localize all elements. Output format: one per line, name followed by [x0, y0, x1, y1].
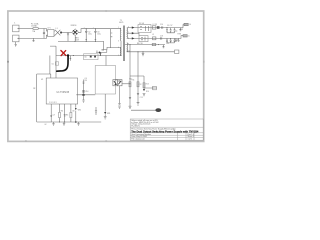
- svg-text:R2: R2: [33, 88, 35, 90]
- svg-text:C8: C8: [72, 111, 74, 113]
- wire bridge plus to top rail: [75, 29, 110, 33]
- bias rectifier branch: [96, 41, 107, 52]
- svg-text:U2: U2: [115, 80, 117, 82]
- feedback resistor R11: [137, 82, 139, 87]
- output connector JP1: [184, 23, 188, 25]
- svg-text:250VAC: 250VAC: [31, 24, 38, 27]
- svg-text:C11: C11: [166, 43, 169, 45]
- red X annotation: [61, 51, 66, 56]
- svg-text:0V: 0V: [45, 124, 48, 126]
- thick marker curve annotation: [57, 54, 69, 71]
- svg-text:VR2: VR2: [78, 110, 81, 112]
- title block outline: [130, 119, 203, 140]
- svg-text:C12: C12: [139, 84, 142, 86]
- bulk capacitor C3: [94, 29, 96, 42]
- svg-text:BR1: BR1: [75, 38, 78, 40]
- svg-text:C D S F X: C D S F X: [49, 102, 57, 104]
- svg-text:R5: R5: [66, 115, 68, 117]
- row A extra cap: [180, 28, 182, 31]
- svg-text:EE25: EE25: [119, 22, 123, 24]
- zone tick left border: [7, 61, 9, 63]
- transformer T1 secondary winding lower: [126, 43, 129, 52]
- optocoupler U2: [113, 80, 117, 86]
- connector J1 box: [13, 25, 19, 32]
- svg-text:L3: L3: [152, 34, 154, 36]
- IC U1: [46, 78, 77, 104]
- tl431 ref component: [153, 86, 157, 89]
- svg-text:2KBP06: 2KBP06: [71, 25, 77, 27]
- drain feed vertical: [50, 46, 56, 78]
- title block vertical separator 2: [193, 133, 195, 140]
- sheet border frame: [8, 11, 204, 141]
- feedback cap C13: [129, 97, 131, 98]
- wire bridge minus to bottom rail: [58, 36, 104, 42]
- secondary row C wire: [127, 36, 183, 39]
- svg-text:C16: C16: [160, 24, 163, 26]
- zone tick top border: [105, 10, 107, 11]
- title block vertical separator 0: [177, 133, 179, 140]
- ground under zener: [104, 117, 107, 119]
- row D cap stub: [163, 45, 165, 48]
- transformer T1 primary winding: [119, 28, 122, 41]
- svg-text:R11: R11: [132, 79, 135, 81]
- opto emitter cap branch: [118, 86, 120, 105]
- fuse F1: [33, 28, 38, 30]
- svg-text:R8 C10: R8 C10: [137, 43, 143, 45]
- svg-text:U1 TOP245: U1 TOP245: [57, 91, 70, 94]
- svg-text:+: +: [84, 27, 85, 29]
- title block separator 2: [130, 132, 203, 134]
- svg-text:J4: J4: [189, 24, 191, 26]
- row D bead FB1: [152, 44, 156, 46]
- row E ground: [142, 52, 145, 56]
- output connector JP3: [175, 50, 179, 53]
- svg-text:C9 C17: C9 C17: [167, 25, 173, 27]
- ground for bypass column: [82, 100, 84, 102]
- primary ground bus: [37, 121, 102, 123]
- svg-text:D3: D3: [102, 50, 104, 52]
- svg-text:R14: R14: [146, 91, 149, 93]
- svg-text:C14: C14: [85, 91, 88, 93]
- clamp row wire: [56, 55, 121, 57]
- wire fuse to filter: [38, 29, 47, 39]
- svg-text:1: 1: [14, 23, 16, 25]
- zone tick bottom left: [25, 140, 27, 141]
- svg-text:100u: 100u: [97, 33, 101, 35]
- svg-text:C3: C3: [97, 31, 99, 33]
- secondary row B wire: [127, 33, 139, 35]
- svg-text:U1: U1: [41, 79, 43, 81]
- zone tick bottom border: [105, 140, 107, 141]
- feedback resistor R12: [143, 83, 145, 88]
- secondary row E wire: [127, 51, 175, 53]
- ground symbol right: [77, 122, 79, 126]
- bridge rectifier BR1: [72, 29, 79, 36]
- U1 bottom pin 1 wire: [50, 104, 52, 122]
- common-mode choke L1 crossed windings: [54, 30, 60, 36]
- svg-text:R3: R3: [85, 80, 87, 82]
- wire primary bottom to drain node: [120, 41, 122, 56]
- ground symbol left: [52, 122, 54, 126]
- output choke L2: [157, 26, 160, 29]
- clamp diode D1: [99, 53, 101, 55]
- svg-text:1 of 1: 1 of 1: [188, 139, 193, 141]
- svg-text:C7: C7: [53, 115, 55, 117]
- svg-text:L2 C9: L2 C9: [153, 24, 158, 26]
- svg-text:3: 3: [118, 41, 119, 43]
- filter caps row A: [166, 28, 177, 33]
- bias diode D3: [99, 51, 102, 53]
- svg-text:10: 10: [128, 51, 130, 53]
- PE ground under J2: [15, 42, 17, 46]
- secondary row D wire: [125, 44, 165, 46]
- series sense R row A: [152, 26, 156, 29]
- svg-text:File: dualout.sch: File: dualout.sch: [131, 138, 144, 141]
- wire left return down: [37, 56, 51, 123]
- opto branch ground: [118, 106, 121, 108]
- wire bias winding taps: [107, 47, 121, 55]
- line filter box FL1: [48, 30, 54, 37]
- row C extra parts: [153, 37, 156, 40]
- feedback resistor R10: [129, 82, 131, 87]
- wire J2 to filter: [19, 35, 48, 38]
- title block separator 1: [130, 126, 203, 128]
- junction dots: [18, 27, 172, 123]
- svg-text:R4: R4: [61, 111, 63, 113]
- svg-text:100u: 100u: [88, 33, 92, 35]
- X capacitor C1b stub at bridge: [67, 32, 69, 41]
- secondary return wire: [131, 109, 156, 111]
- wire choke to bridge: [62, 31, 72, 33]
- secondary row A wire: [127, 25, 184, 28]
- svg-text:RTN: RTN: [178, 33, 182, 35]
- connector J2 box: [13, 35, 19, 42]
- wire opto to divider: [122, 83, 130, 85]
- svg-text:C6: C6: [84, 57, 86, 59]
- transformer T1 core: [123, 26, 124, 62]
- post filter box row C: [139, 36, 148, 42]
- row C extra cap: [178, 38, 180, 41]
- ground symbol mid: [63, 122, 65, 126]
- title block separator 3: [130, 134, 203, 136]
- svg-text:C15: C15: [140, 97, 143, 99]
- output rectifier D4: [132, 37, 135, 39]
- feedback divider verticals: [130, 45, 138, 76]
- feedback cap C12: [137, 93, 139, 94]
- title block vertical separator 1: [185, 133, 187, 140]
- bias cap C4b branch: [95, 107, 97, 115]
- U1 bottom pin 2 component R6: [59, 104, 61, 122]
- zener D6: [75, 108, 77, 110]
- svg-text:C2: C2: [88, 31, 90, 33]
- svg-text:C5: C5: [52, 63, 54, 65]
- output connector JP2: [183, 35, 187, 37]
- wire HV rail drop: [111, 29, 121, 48]
- U1 bottom pin 5 zener branch: [75, 104, 77, 122]
- svg-text:J5: J5: [188, 36, 190, 38]
- row A small marks: [162, 26, 163, 28]
- title block separator 4: [130, 137, 203, 139]
- capacitor C1 stub: [33, 38, 35, 41]
- bypass cap column right of U1: [76, 80, 95, 101]
- svg-text:+12V: +12V: [179, 29, 184, 31]
- svg-text:D1: D1: [96, 51, 98, 53]
- svg-text:VR1: VR1: [107, 113, 110, 115]
- wire clamp row to shield box: [105, 56, 107, 66]
- TL431 U3: [143, 89, 145, 91]
- cluster grounds: [129, 93, 146, 108]
- wire J1 to fuse: [19, 28, 33, 30]
- svg-text:T2A: T2A: [32, 30, 36, 33]
- feedback network cluster: [130, 76, 144, 106]
- zener return vertical: [104, 94, 106, 112]
- post filter box row A: [138, 25, 151, 33]
- svg-text:R13: R13: [146, 84, 149, 86]
- svg-text:LF1: LF1: [48, 28, 51, 30]
- filter caps row C: [166, 38, 177, 43]
- U1 bottom pin 4 component R7: [70, 104, 72, 122]
- clamp snubber label box: [84, 54, 99, 60]
- svg-text:C18: C18: [160, 35, 163, 37]
- row B rectifier D5: [132, 32, 135, 34]
- clamp stub component: [70, 56, 72, 61]
- thermistor RT1: [60, 32, 62, 34]
- zone tick right border: [203, 61, 205, 63]
- bulk capacitor C2: [85, 29, 87, 42]
- ferrite bead FB2: [155, 108, 161, 112]
- svg-text:+: +: [93, 27, 94, 29]
- transformer T1 secondary winding upper: [126, 28, 129, 38]
- output rectifier D2: [132, 26, 135, 28]
- U1 bottom pin 3 wire: [64, 104, 66, 122]
- zener diode VR1: [104, 112, 106, 114]
- transformer T1 bias winding: [119, 47, 122, 55]
- shield box: [95, 66, 115, 95]
- snubber cap C5 box: [55, 62, 58, 65]
- svg-text:L1: L1: [56, 28, 58, 30]
